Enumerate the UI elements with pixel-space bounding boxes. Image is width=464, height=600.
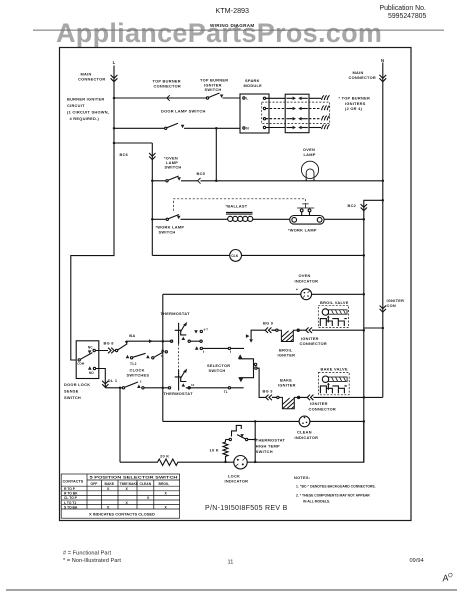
arrow marker on thermostat row [149, 339, 153, 343]
svg-text:MODULE: MODULE [244, 83, 263, 88]
svg-text:CLEAN: CLEAN [140, 482, 152, 486]
svg-text:BAKE VALVE: BAKE VALVE [321, 367, 348, 372]
main connector L symbol [111, 75, 118, 82]
wire door lamp row [114, 127, 165, 129]
svg-text:SENSE: SENSE [64, 388, 79, 393]
node junction right rail oven lamp row [382, 180, 385, 183]
svg-text:1. “BC-” DENOTES BACKGUARD CON: 1. “BC-” DENOTES BACKGUARD CONNECTORS. [296, 485, 376, 489]
main connector N symbol [379, 75, 386, 82]
dashed optional igniters box [262, 102, 330, 124]
wire oven indicator row right [312, 293, 364, 295]
wire thermostat row right [190, 340, 200, 342]
svg-text:BG 8: BG 8 [104, 341, 115, 346]
node junction L jog [113, 142, 116, 145]
bottom rule [6, 589, 457, 591]
wire bake row to rail corner [364, 396, 383, 398]
svg-text:L: L [113, 60, 116, 65]
svg-text:CIRCUIT: CIRCUIT [67, 103, 85, 108]
node junction 216 oven lamp row [215, 180, 218, 183]
node junction lock row [119, 387, 122, 390]
wire pivot to bake feed [257, 368, 277, 397]
watermark strikethrough line [33, 29, 444, 31]
wire broil feed up [251, 330, 276, 339]
svg-text:L: L [246, 97, 248, 101]
svg-text:BURNER IGNITER: BURNER IGNITER [67, 97, 104, 102]
svg-text:(2 OR 4): (2 OR 4) [345, 106, 363, 111]
wire lock indicator row [120, 461, 156, 463]
wire to broil valve [312, 329, 364, 331]
broil valve coil [322, 309, 328, 315]
svg-text:BC2: BC2 [348, 203, 357, 208]
wire inner rail down [363, 219, 365, 462]
wire lock row [105, 387, 122, 389]
node junction lock row right [254, 461, 257, 464]
wire L rail upper [113, 66, 115, 144]
node junction at 216 [215, 127, 218, 130]
svg-text:*WORK LAMP: *WORK LAMP [288, 228, 317, 233]
wire branch down to oven lamp row [215, 128, 217, 181]
node junction BC2 on rail [382, 199, 385, 202]
svg-text:(1 CIRCUIT SHOWN,: (1 CIRCUIT SHOWN, [67, 110, 109, 115]
broil igniter (hatched) [278, 330, 296, 341]
svg-text:HIGH TEMP: HIGH TEMP [256, 443, 280, 448]
svg-text:SWITCH: SWITCH [209, 368, 226, 373]
node junction row2 thermostat feed [162, 387, 165, 390]
svg-text:5995247805: 5995247805 [388, 13, 426, 20]
broil feed contact [249, 339, 253, 342]
clean indicator lamp [299, 416, 310, 427]
svg-text:CONNECTOR: CONNECTOR [309, 406, 337, 411]
clock motor CLK [230, 250, 242, 262]
svg-text:KTM-2893: KTM-2893 [216, 6, 250, 15]
svg-text:S TO BA: S TO BA [64, 505, 78, 509]
wire N rail [382, 63, 384, 398]
node junction oven lamp row [151, 180, 154, 183]
dashed alternate circuit wire [174, 199, 306, 211]
spark module U1 box [240, 94, 269, 133]
wire row1 burner igniter [114, 97, 206, 99]
svg-text:NO: NO [89, 371, 94, 375]
svg-text:*BALLAST: *BALLAST [226, 203, 248, 208]
wire L rail lower to lock circuit [71, 143, 114, 360]
clock switch row2 [126, 355, 130, 358]
svg-text:CL TO P: CL TO P [64, 496, 78, 500]
oven lamp bulb [301, 161, 318, 178]
svg-text:SWITCH: SWITCH [159, 230, 176, 235]
svg-text:COM: COM [77, 362, 85, 366]
wire CLK row right [242, 254, 364, 256]
top burner igniter connector block [285, 94, 309, 133]
pin N of spark module [243, 127, 245, 129]
connector broil igniter chevron [306, 327, 312, 333]
svg-text:# = Functional Part: # = Functional Part [63, 551, 111, 557]
wire lamp feed rail [151, 143, 153, 255]
wire lock indicator right [247, 423, 364, 463]
connector BG9 chevron [265, 327, 271, 333]
connector BC2 chevron [361, 204, 367, 211]
svg-text:DOOR LOCK: DOOR LOCK [64, 382, 90, 387]
svg-text:L TO T1: L TO T1 [64, 501, 76, 505]
node junction oven indicator row [363, 293, 366, 296]
resistor 10K vertical [223, 440, 228, 462]
svg-text:11: 11 [228, 560, 234, 566]
svg-text:* = Non-Illustrated Part: * = Non-Illustrated Part [63, 558, 121, 564]
connector arrows row1 [286, 97, 292, 99]
svg-text:X INDICATES CONTACTS CLOSED: X INDICATES CONTACTS CLOSED [89, 512, 155, 516]
svg-text:SWITCH: SWITCH [64, 395, 81, 400]
wire thermostat feed vertical [162, 294, 164, 421]
wire to bake igniter [272, 396, 277, 398]
wire oven lamp row [181, 180, 383, 182]
node junction work lamp row [151, 218, 154, 221]
connector top burner (chevron) [167, 95, 170, 101]
node junction CLK row [363, 254, 366, 257]
switch blade door lock [80, 353, 92, 360]
wire door lamp switch to module N [184, 127, 240, 129]
contact 9T [194, 330, 198, 333]
svg-text:SWITCH: SWITCH [256, 449, 273, 454]
svg-text:BG 9: BG 9 [263, 321, 274, 326]
connector arrows row4 [286, 127, 292, 129]
node junction work lamp row right [363, 218, 366, 221]
svg-text:IGNITER: IGNITER [278, 353, 296, 358]
wire thermostat row [126, 340, 171, 342]
svg-text:10 K: 10 K [210, 447, 219, 452]
svg-text:CLEAN: CLEAN [297, 429, 312, 434]
work lamp tube [290, 216, 324, 225]
svg-text:BROIL VALVE: BROIL VALVE [320, 300, 349, 305]
wire ballast to work lamp [253, 218, 290, 220]
node junction high temp switch [254, 438, 257, 441]
wire igniter to connector [297, 329, 314, 331]
wire to ballast [181, 218, 229, 220]
broil valve bimetal [320, 319, 347, 326]
svg-text:TL: TL [224, 390, 228, 394]
wire time bake row [202, 347, 244, 349]
svg-text:SWITCH: SWITCH [165, 165, 182, 170]
svg-text:IGNITER: IGNITER [278, 383, 296, 388]
node junction thermostat row [162, 340, 165, 343]
svg-text:CON: CON [387, 303, 397, 308]
mechanical link [178, 323, 180, 344]
svg-text:Publication No.: Publication No. [380, 5, 426, 12]
svg-text:DOOR LAMP SWITCH: DOOR LAMP SWITCH [161, 109, 206, 114]
svg-text:R TO P: R TO P [64, 487, 76, 491]
svg-text:SWITCHES: SWITCHES [127, 372, 150, 377]
svg-text:SWITCH: SWITCH [205, 87, 222, 92]
wire to bake valve [314, 396, 364, 398]
igniter electrode glyphs [322, 96, 330, 100]
node junction clean row [363, 420, 366, 423]
svg-text:BROIL: BROIL [159, 482, 170, 486]
pin L of spark module [243, 97, 245, 99]
wire CLK row [152, 254, 230, 256]
high temp switch actuator step [232, 425, 242, 436]
schematic outer border [60, 48, 412, 521]
svg-text:OFF: OFF [91, 482, 98, 486]
svg-text:NOTES:: NOTES: [294, 475, 310, 480]
svg-text:12: 12 [191, 383, 195, 387]
ballast coil [226, 211, 253, 213]
wire igniter to connector bake [298, 396, 315, 398]
bake valve coil [322, 376, 328, 382]
svg-text:DL 1: DL 1 [108, 378, 118, 383]
resistor 20K [156, 459, 180, 465]
switch top burner igniter [206, 97, 208, 99]
svg-text:P/N-19I50I8F505 REV B: P/N-19I50I8F505 REV B [205, 505, 288, 512]
connector BC5 chevron [198, 178, 201, 184]
svg-text:CONTACTS: CONTACTS [63, 480, 84, 484]
door lock sense switch box [76, 341, 99, 379]
svg-text:IN ALL MODELS.: IN ALL MODELS. [303, 500, 330, 504]
clock switch upper [115, 349, 117, 351]
svg-text:CONNECTOR: CONNECTOR [78, 77, 106, 82]
wire to broil igniter [272, 329, 276, 331]
broil valve dashed box [318, 305, 348, 327]
svg-text:LAMP: LAMP [304, 152, 316, 157]
selector pivot [254, 363, 256, 365]
svg-text:INDICATOR: INDICATOR [295, 278, 319, 283]
svg-text:T1 2: T1 2 [130, 362, 137, 366]
switch work lamp [166, 218, 168, 220]
wire clean indicator row right [310, 420, 364, 422]
wire L jog right [114, 142, 152, 144]
contact NO [88, 366, 92, 370]
wire BC2 stub [364, 200, 383, 219]
bake valve bimetal [320, 386, 347, 393]
connector bake igniter chevron [307, 395, 313, 401]
connector igniter con chevron on N rail [380, 306, 386, 313]
switch door lamp [165, 127, 167, 129]
bake igniter (hatched) [279, 397, 297, 408]
lock indicator lamp [234, 456, 247, 469]
svg-text:5 POSITION SELECTOR SWI: 5 POSITION SELECTOR SWITCH [90, 476, 178, 480]
svg-text:09/94: 09/94 [410, 558, 424, 564]
node junction bake valve row [363, 396, 366, 399]
svg-text:CONNECTOR: CONNECTOR [349, 75, 377, 80]
wire work lamp row right [324, 218, 364, 220]
svg-text:*: * [296, 288, 298, 293]
wire row2 [144, 387, 168, 389]
svg-text:INDICATOR: INDICATOR [225, 479, 249, 484]
wire switch to 10K node [226, 439, 230, 441]
thermostat 2 [168, 387, 170, 389]
wire clean indicator row [163, 420, 299, 422]
svg-text:N: N [381, 58, 384, 63]
svg-text:CONNECTOR: CONNECTOR [154, 83, 182, 88]
connector BC6 [149, 153, 155, 160]
svg-text:BAKE: BAKE [105, 482, 115, 486]
svg-text:BG 3: BG 3 [263, 389, 274, 394]
node junction lock indicator left [224, 461, 227, 464]
switch on lock row [122, 387, 124, 389]
svg-text:9 T: 9 T [204, 328, 209, 332]
wire oven lamp row left [152, 180, 166, 182]
svg-text:R TO BK: R TO BK [64, 492, 78, 496]
svg-text:BC6: BC6 [120, 152, 129, 157]
svg-text:20 K: 20 K [160, 454, 169, 459]
svg-text:THERMOSTAT: THERMOSTAT [164, 391, 194, 396]
node junction broil valve row [363, 329, 366, 332]
connector arrows row2 [286, 108, 292, 110]
contact NC [88, 350, 92, 353]
wire NC out with BG8 connector [95, 350, 115, 352]
svg-text:CONNECTOR: CONNECTOR [300, 341, 328, 346]
svg-text:CLK: CLK [231, 254, 239, 258]
node junction door lamp row [113, 127, 116, 130]
wire work lamp row left [152, 218, 166, 220]
thermostat 1 [170, 340, 172, 342]
wire NO down with DL1 connector [96, 369, 106, 388]
svg-text:WIRING DIAGRAM: WIRING DIAGRAM [210, 23, 255, 28]
thermostat high temp switch [245, 438, 247, 440]
svg-text:2. * THESE COMPONENTS MAY NOT: 2. * THESE COMPONENTS MAY NOT APPEAR [296, 493, 370, 497]
bake valve dashed box [318, 372, 349, 394]
svg-text:THERMOSTAT: THERMOSTAT [256, 438, 286, 443]
wires module to igniter connector block [266, 97, 286, 99]
wire high temp switch drop [254, 421, 256, 462]
pins output of spark module [263, 97, 265, 99]
node junction clean row tap [254, 420, 257, 423]
wire switch to module [223, 97, 241, 99]
svg-text:4 REQUIRED.): 4 REQUIRED.) [70, 116, 100, 121]
wires block to igniters [309, 97, 321, 99]
svg-text:INDICATOR: INDICATOR [295, 435, 319, 440]
svg-text:NC: NC [88, 345, 93, 349]
contacts table [61, 474, 179, 518]
selector bracket [238, 354, 243, 358]
wire broil valve row to rail [364, 327, 383, 329]
contact to thermostat feed [161, 348, 165, 351]
svg-text:BA: BA [129, 333, 135, 338]
node junction L row1 [113, 97, 116, 100]
connector arrows row3 [286, 118, 292, 120]
connector BG3 chevron [266, 395, 272, 401]
wire down to lock indicator row [119, 388, 121, 462]
wire row2 right [186, 387, 244, 389]
switch oven lamp [166, 180, 168, 182]
wire 20K to indicator [180, 461, 234, 463]
wire oven indicator row [163, 293, 301, 295]
svg-text:THERMOSTAT: THERMOSTAT [161, 311, 191, 316]
svg-text:TIME BAKE: TIME BAKE [120, 482, 139, 486]
svg-text:BC5: BC5 [197, 171, 206, 176]
